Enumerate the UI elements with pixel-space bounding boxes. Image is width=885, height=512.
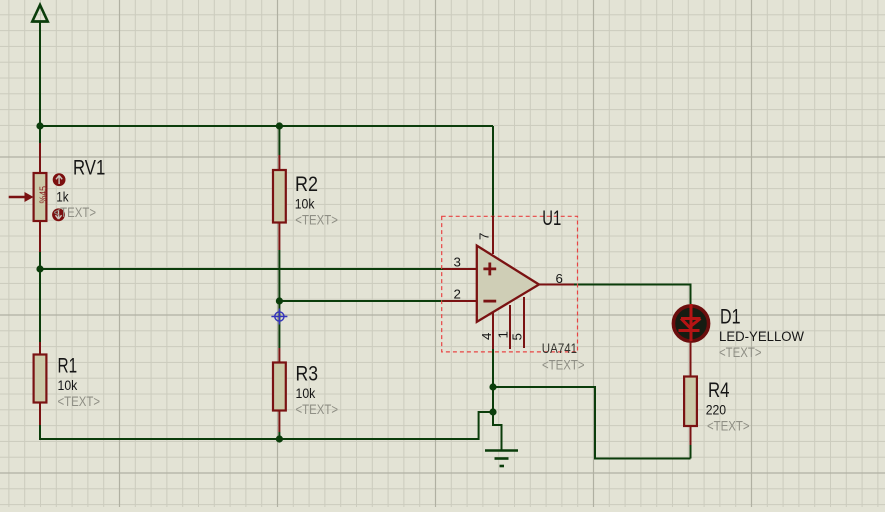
wire: power stem xyxy=(39,22,41,126)
wire: ground stem jog xyxy=(493,412,502,450)
svg-text:10k: 10k xyxy=(295,197,315,212)
svg-text:RV1: RV1 xyxy=(73,157,105,180)
svg-text:D1: D1 xyxy=(720,305,741,328)
pin 5 xyxy=(523,297,525,348)
pin 3 xyxy=(443,268,477,270)
svg-text:R4: R4 xyxy=(708,379,730,402)
wire: node B to op-amp pin2 xyxy=(279,300,443,302)
svg-text:<TEXT>: <TEXT> xyxy=(542,358,585,373)
svg-text:R1: R1 xyxy=(58,355,78,378)
node marker (blue origin cross) xyxy=(271,309,287,325)
wire: RV1 bottom to node xyxy=(39,252,41,342)
wire: R2 bottom to node B to R3 top xyxy=(278,250,280,348)
svg-text:1k: 1k xyxy=(56,190,69,205)
svg-text:4: 4 xyxy=(479,333,494,340)
svg-text:%45: %45 xyxy=(39,186,50,204)
wire: op-amp pin6 output to LED top xyxy=(573,285,691,305)
ground xyxy=(485,451,518,467)
svg-text:10k: 10k xyxy=(58,378,78,393)
svg-text:1: 1 xyxy=(496,331,511,338)
svg-text:U1: U1 xyxy=(542,207,561,230)
wire: R1 bottom to bottom bus xyxy=(40,425,479,439)
svg-text:LED-YELLOW: LED-YELLOW xyxy=(719,329,804,344)
svg-text:3: 3 xyxy=(454,254,461,269)
svg-text:<TEXT>: <TEXT> xyxy=(58,394,101,409)
RV1 up button xyxy=(53,173,66,186)
svg-text:<TEXT>: <TEXT> xyxy=(719,345,762,360)
resistor R2 xyxy=(273,155,338,250)
svg-text:<TEXT>: <TEXT> xyxy=(54,205,97,220)
op-amp U1 xyxy=(443,207,585,372)
pin 7 xyxy=(492,216,494,254)
wire: RV1 top xyxy=(39,126,41,143)
resistor R1 xyxy=(34,342,101,425)
potentiometer RV1 xyxy=(9,143,106,252)
svg-text:220: 220 xyxy=(706,403,726,418)
pin 1 xyxy=(509,305,511,349)
wire: R4 bottom stub xyxy=(690,445,692,459)
LED D1 xyxy=(673,304,804,360)
svg-text:<TEXT>: <TEXT> xyxy=(296,402,339,417)
wire: R3 bottom xyxy=(278,432,280,439)
svg-text:5: 5 xyxy=(510,333,525,340)
pin 4 xyxy=(492,312,494,349)
wire: op-amp pin4 down to ground node xyxy=(492,349,494,412)
pin 6 xyxy=(539,284,574,286)
plus xyxy=(483,263,496,276)
svg-text:<TEXT>: <TEXT> xyxy=(295,213,338,228)
wire: ground node to R4 bottom xyxy=(493,387,691,459)
wire: drop to op-amp pin7 xyxy=(492,126,494,216)
svg-text:2: 2 xyxy=(454,286,461,301)
op-amp U1 dashed selection box xyxy=(442,216,578,352)
triangle body xyxy=(477,246,539,322)
RV1 down button xyxy=(52,208,65,221)
pin 2 xyxy=(443,300,477,302)
svg-text:R3: R3 xyxy=(296,363,319,386)
svg-text:10k: 10k xyxy=(296,386,316,401)
power symbol (arrow up) xyxy=(32,5,48,22)
resistor R4 xyxy=(684,341,750,445)
svg-text:UA741: UA741 xyxy=(542,341,577,356)
wire: R2 top xyxy=(278,126,280,155)
svg-text:<TEXT>: <TEXT> xyxy=(707,419,750,434)
minus xyxy=(483,300,496,303)
svg-text:R2: R2 xyxy=(295,173,318,196)
wire: top bus xyxy=(40,125,493,127)
wire: node A to op-amp pin3 xyxy=(40,268,443,270)
svg-text:7: 7 xyxy=(477,233,492,240)
svg-text:6: 6 xyxy=(556,271,563,286)
resistor R3 xyxy=(273,348,338,432)
wire: bottom bus step up to ground node xyxy=(479,412,493,440)
